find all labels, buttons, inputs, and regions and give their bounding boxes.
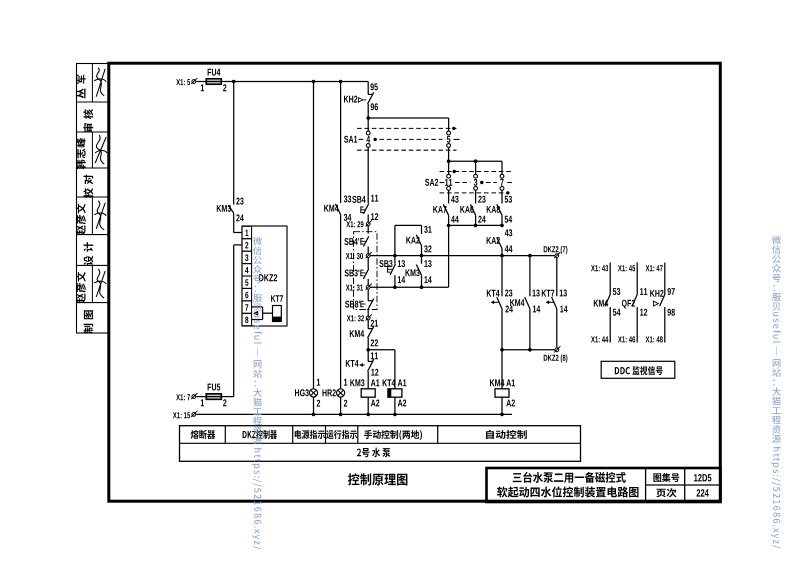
wire DKZ2(8) rail: [500, 348, 554, 352]
title block: [487, 468, 721, 502]
wire X1:31 rail: [370, 285, 448, 289]
fuse FU5: [196, 384, 234, 407]
legend table: [180, 426, 581, 462]
junction top rail / KM4-HR2 column: [339, 80, 343, 84]
junction top rail / HG3 column: [312, 80, 316, 84]
wire bottom bus: [196, 413, 512, 417]
legend 熔断器: [191, 430, 216, 439]
margin label 审核: [83, 109, 93, 132]
contact KM3 13/14: [406, 256, 432, 288]
switch SA2 pole 11: [447, 161, 451, 203]
contact KM3 23/24: [217, 198, 244, 222]
wire KA2 loop: [395, 225, 422, 255]
contact KA2 43/44: [487, 229, 513, 255]
drawing sheet frame: [109, 63, 721, 501]
timer KT7 inside DKZ2: [252, 295, 283, 321]
contact KT4 23/24 (time delay): [487, 256, 513, 350]
label 图集号: [653, 473, 679, 482]
value 12D5: [694, 474, 711, 482]
signature: [94, 269, 106, 298]
value 224: [697, 489, 709, 496]
contact KA8 53/54: [487, 196, 513, 226]
wire SA2 bus: [447, 159, 502, 163]
DDC signal box: [601, 361, 675, 378]
contact KH2 95/96 (thermal relay NC): [344, 82, 378, 119]
legend 电源指示: [295, 430, 325, 439]
terminal X1:29: [346, 220, 372, 233]
button SB4′: [344, 236, 368, 253]
margin label 设计: [84, 242, 94, 265]
switch SA1 pole 4: [366, 118, 370, 203]
button SB8′ (NC): [345, 289, 374, 316]
label DKZ2: [259, 274, 277, 281]
switch SA2 pole 3: [474, 161, 478, 203]
watermark right column: [771, 236, 781, 549]
legend 手动控制(两地): [364, 430, 422, 440]
margin label 赵彦文: [76, 272, 86, 303]
monitor contact QF2 11/12: [618, 263, 647, 343]
wire HG3 column: [313, 82, 315, 389]
monitor contact KH2 97/98: [646, 263, 675, 343]
wire KM3 to DKZ2 pin 1: [234, 213, 242, 232]
margin label 韩志峰: [76, 138, 86, 169]
contact KM4 13/14: [510, 256, 540, 350]
contact KT7 13/14 (time delay): [542, 258, 568, 348]
switch SA2 pole 7: [500, 161, 504, 203]
title line 1: [513, 472, 626, 483]
wire DKZ2 pin2 to FU5: [234, 245, 242, 397]
terminal DKZ2 (8): [544, 346, 568, 362]
signature: [95, 135, 107, 164]
terminal X1:15: [173, 411, 198, 419]
coil KM3: [350, 379, 379, 414]
wire top rail: [196, 81, 368, 83]
lamp HG3: [295, 379, 320, 415]
coil KT4 (timer): [383, 379, 407, 414]
legend DKZ控制器: [243, 430, 277, 439]
junction to KT4 coil branch: [366, 348, 394, 389]
fuse FU4: [201, 69, 227, 91]
terminal X1:5: [176, 78, 197, 85]
contact KT4 11/12 (time delay): [346, 350, 379, 389]
signature: [94, 201, 106, 230]
wire X1:30 rail: [370, 254, 554, 258]
button SB3′ (NC): [345, 258, 369, 285]
margin label 校对: [83, 175, 93, 199]
wire KA bus down to X1:31 rail: [448, 225, 450, 287]
SA1 position lines: [344, 127, 460, 151]
wire KA output bus: [447, 224, 504, 228]
lamp HR2: [323, 379, 348, 415]
contact KM4 33/34: [324, 196, 351, 389]
legend 2号水泵: [357, 448, 391, 458]
contact KA7 43/44: [433, 196, 459, 226]
signature: [94, 68, 106, 97]
legend 运行指示: [326, 430, 357, 439]
contact KM4 21/22 (NC): [350, 320, 378, 350]
junction top rail / KM3 column: [232, 80, 236, 84]
terminal DKZ2 (7): [544, 246, 568, 258]
monitor contact KM4 53/54: [591, 263, 621, 343]
remote buttons enclosure: [354, 232, 378, 310]
wire KM3 column upper: [233, 82, 235, 205]
button SB4 11/12: [352, 195, 378, 222]
wire KM4-HR2 column upper: [340, 82, 342, 204]
terminal X1:7: [176, 393, 197, 400]
legend 自动控制: [486, 430, 527, 439]
terminal X1:32: [347, 314, 372, 323]
title line 2: [497, 486, 639, 497]
contact KA2 31/32: [406, 226, 431, 256]
contact KA6 23/24: [460, 196, 486, 226]
margin label 制图: [84, 310, 94, 333]
title margin strip: [77, 64, 109, 334]
button SB3 13/14: [379, 256, 405, 288]
wire KH2 to SA1 rail: [366, 116, 448, 120]
SA2 position lines: [425, 170, 512, 195]
margin label 赵彦文: [76, 204, 86, 235]
coil KM4: [490, 350, 515, 415]
terminal X1:30: [346, 252, 372, 259]
caption 控制原理图: [348, 473, 407, 485]
margin label 丛军: [76, 75, 86, 99]
watermark left column: [252, 237, 262, 550]
controller DKZ2 box: [242, 226, 287, 326]
switch SA1 pole 5: [447, 118, 451, 161]
terminal X1:31: [346, 284, 372, 291]
label 页次: [656, 488, 676, 497]
